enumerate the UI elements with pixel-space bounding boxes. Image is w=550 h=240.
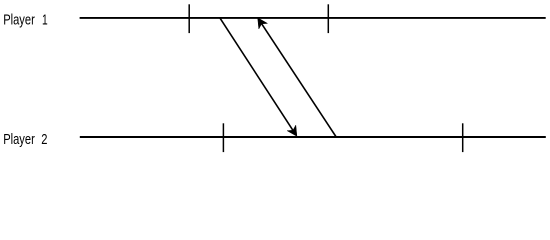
timeline Player 1 <box>80 17 546 19</box>
message arrow M1 shaft (Player 1 to Player 2) <box>220 18 294 132</box>
message arrow M2 shaft (Player 2 to Player 1) <box>261 22 337 137</box>
tick T4 on Player 2 timeline <box>462 123 464 152</box>
svg-text:Player: Player <box>3 131 35 148</box>
message arrow M1 head <box>287 125 297 136</box>
tick T2 on Player 1 timeline <box>327 4 329 33</box>
svg-text:1: 1 <box>42 12 48 29</box>
label Player 1 <box>3 12 48 29</box>
svg-text:Player: Player <box>3 12 35 29</box>
tick T3 on Player 2 timeline <box>222 123 224 152</box>
message arrow M2 head <box>258 18 268 29</box>
label Player 2 <box>3 131 47 148</box>
timeline Player 2 <box>80 136 546 138</box>
svg-text:2: 2 <box>41 131 47 148</box>
tick T1 on Player 1 timeline <box>188 4 190 33</box>
